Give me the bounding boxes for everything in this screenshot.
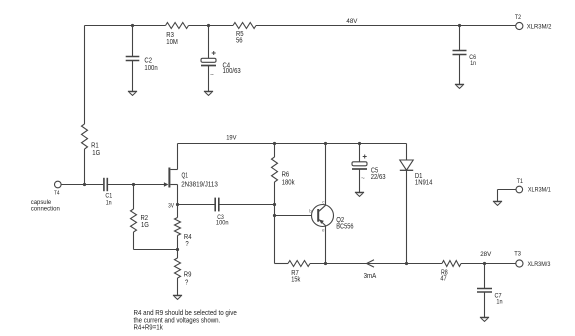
svg-text:100n: 100n: [216, 220, 229, 227]
svg-text:R9: R9: [184, 272, 192, 279]
svg-text:1G: 1G: [92, 150, 100, 157]
svg-text:BC556: BC556: [336, 224, 353, 231]
svg-text:1G: 1G: [141, 222, 149, 229]
svg-text:XLR3M/3: XLR3M/3: [528, 261, 551, 268]
svg-text:19V: 19V: [226, 134, 237, 141]
svg-text:~: ~: [210, 72, 214, 79]
svg-text:1n: 1n: [496, 299, 502, 306]
svg-text:T4: T4: [54, 191, 60, 197]
svg-text:?: ?: [185, 279, 188, 286]
svg-text:1n: 1n: [106, 199, 112, 206]
svg-text:connection: connection: [31, 205, 60, 212]
svg-text:22/63: 22/63: [371, 174, 386, 181]
svg-text:10M: 10M: [166, 39, 178, 46]
svg-text:C2: C2: [144, 58, 152, 65]
svg-text:1n: 1n: [470, 60, 476, 67]
svg-text:56: 56: [236, 38, 243, 45]
svg-text:?: ?: [185, 241, 188, 248]
svg-text:XLR3M/2: XLR3M/2: [527, 23, 552, 30]
svg-text:R2: R2: [141, 215, 149, 222]
svg-text:R4+R9=1k: R4+R9=1k: [134, 323, 164, 332]
svg-text:1N914: 1N914: [415, 179, 433, 186]
svg-text:47: 47: [440, 276, 446, 283]
svg-text:R6: R6: [282, 172, 290, 179]
svg-text:28V: 28V: [480, 251, 492, 258]
svg-text:XLR3M/1: XLR3M/1: [528, 187, 551, 194]
svg-text:180k: 180k: [282, 180, 295, 187]
svg-text:R4: R4: [184, 234, 192, 241]
svg-text:15k: 15k: [291, 276, 300, 283]
svg-text:100/63: 100/63: [223, 68, 241, 75]
svg-text:T1: T1: [517, 178, 524, 185]
svg-text:100n: 100n: [144, 65, 157, 72]
svg-text:T3: T3: [514, 250, 521, 257]
svg-text:48V: 48V: [346, 18, 357, 25]
svg-text:Q1: Q1: [182, 173, 189, 180]
svg-text:3V: 3V: [168, 203, 174, 210]
svg-text:~: ~: [361, 175, 365, 182]
svg-text:2N3819/J113: 2N3819/J113: [181, 181, 218, 188]
svg-text:R1: R1: [91, 143, 99, 150]
svg-text:T2: T2: [515, 14, 522, 21]
svg-text:3mA: 3mA: [364, 273, 377, 280]
